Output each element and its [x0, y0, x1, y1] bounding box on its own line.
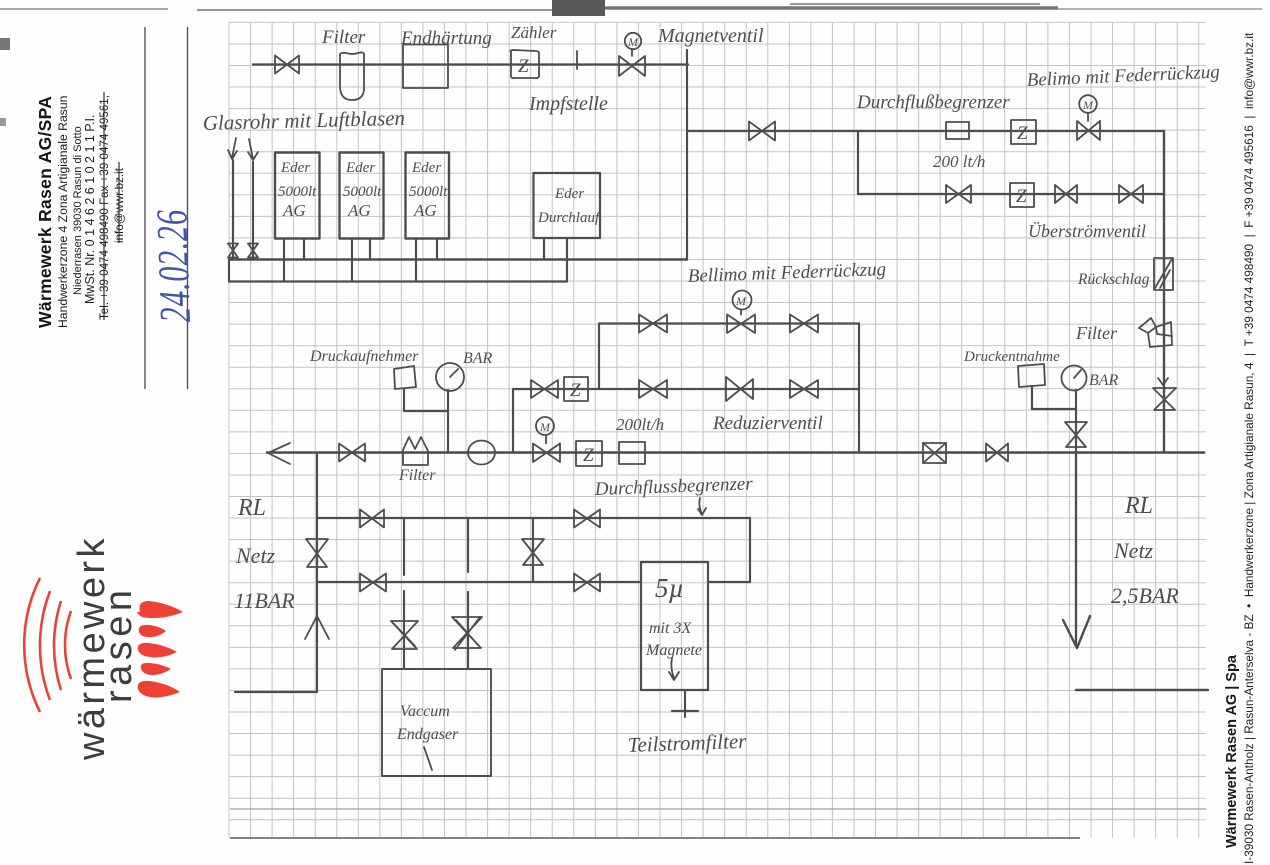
wire manifold lower [229, 280, 567, 282]
graph paper grid [229, 22, 1199, 838]
svg-text:200 lt/h: 200 lt/h [933, 152, 985, 171]
wire right gauge stem [1075, 390, 1077, 453]
main pipe left arrow [268, 443, 290, 464]
svg-text:Magnete: Magnete [645, 642, 702, 659]
vertical valve on left riser [306, 539, 328, 567]
arrow in 5u box [669, 658, 679, 680]
logo flames [137, 601, 183, 618]
svg-text:2,5BAR: 2,5BAR [1111, 583, 1179, 608]
right sensor box [1018, 364, 1045, 387]
arrow under durchflussbegrenzer label [698, 498, 706, 515]
pump ellipse main pipe [468, 441, 495, 465]
left gauge circle [436, 363, 464, 391]
valve on pipe2 [749, 122, 775, 141]
wire corner x750 [749, 518, 751, 582]
wire main pipe [267, 451, 1204, 454]
wire durchlauf box stems [544, 238, 567, 282]
vertical valve x533 [522, 539, 544, 565]
vertical valve on x1164 [1153, 388, 1176, 410]
reducer valve middle branch [726, 377, 753, 401]
valve middle branch 2 [639, 380, 667, 398]
svg-text:Durchlauf: Durchlauf [537, 210, 601, 226]
svg-text:Filter: Filter [398, 467, 436, 484]
wire vertical x599 [598, 324, 600, 390]
svg-text:Magnetventil: Magnetventil [657, 25, 764, 47]
svg-text:BAR: BAR [1089, 372, 1119, 389]
wire vertical x513 [512, 389, 514, 453]
wire tank1 stems [284, 239, 304, 282]
svg-text:Zähler: Zähler [511, 23, 557, 42]
valve V1 top pipe [275, 56, 299, 74]
small valve glas tube2 [248, 244, 258, 258]
wire right downpipe x1076 [1075, 453, 1077, 646]
svg-text:M: M [627, 35, 639, 49]
svg-text:Netz: Netz [235, 543, 276, 568]
Z-box top pipe [510, 50, 539, 78]
svg-text:BAR: BAR [463, 350, 493, 367]
right gauge circle [1062, 366, 1087, 391]
valve upper branch 2 [790, 315, 818, 333]
svg-text:5µ: 5µ [655, 573, 684, 603]
wire middle branch y389 [513, 388, 859, 390]
wire top pipe [253, 63, 688, 65]
svg-text:I-39030 Rasen-Antholz | Rasun-: I-39030 Rasen-Antholz | Rasun-Anterselva… [1242, 32, 1256, 864]
svg-text:M: M [735, 294, 747, 308]
wire vertical x859 [858, 324, 860, 453]
wire vertical from top pipe to manifold [686, 50, 688, 260]
wire line y194 [858, 193, 1164, 195]
strikethrough on info line [118, 162, 120, 243]
wire bottom stub [235, 691, 317, 693]
small valve glas tube1 [228, 244, 238, 258]
svg-text:5000lt: 5000lt [409, 184, 448, 200]
valve bypass line2 a [360, 574, 386, 592]
logo red arcs [24, 578, 40, 712]
crossed box main pipe [923, 443, 946, 463]
svg-text:M: M [1082, 98, 1094, 112]
valve bypass line1 a [360, 510, 384, 528]
svg-text:Wärmewerk Rasen AG | Spa: Wärmewerk Rasen AG | Spa [1224, 654, 1240, 848]
svg-text:Eder: Eder [345, 160, 375, 176]
small line under endgaser [424, 747, 432, 770]
wire pipe 2 [687, 130, 1164, 132]
svg-text:Filter: Filter [1075, 323, 1118, 343]
svg-text:Teilstromfilter: Teilstromfilter [627, 729, 747, 757]
svg-text:M: M [539, 420, 551, 434]
svg-text:Netz: Netz [1113, 538, 1154, 563]
svg-text:24.02.26: 24.02.26 [148, 208, 201, 323]
svg-text:Druckentnahme: Druckentnahme [963, 349, 1060, 365]
belimo valve on pipe2 with M actuator [1077, 113, 1100, 140]
svg-text:AG: AG [347, 201, 371, 220]
wire bottom right line [1076, 689, 1208, 691]
belimo valve upper branch with M [727, 310, 755, 333]
wire upper branch y323 [599, 322, 859, 324]
svg-text:Rückschlag: Rückschlag [1077, 271, 1150, 288]
tank 3 [406, 153, 450, 239]
rect main pipe [619, 442, 645, 464]
svg-text:Filter: Filter [321, 27, 366, 48]
vertical rule 1 [144, 27, 146, 389]
glasrohr arrow 1 [228, 138, 237, 159]
svg-text:200lt/h: 200lt/h [616, 415, 664, 434]
vertical rule 2 [187, 27, 189, 389]
big V arrow bottom of x1076 [1063, 616, 1090, 648]
magnet valve top with M actuator [619, 49, 645, 76]
svg-text:Endhärtung: Endhärtung [400, 28, 492, 49]
svg-text:Eder: Eder [280, 160, 310, 176]
valve1 line194 [946, 185, 971, 203]
svg-text:Z: Z [518, 56, 529, 77]
magnet valve main pipe with M [533, 435, 560, 462]
svg-text:5000lt: 5000lt [343, 184, 382, 200]
Z-box main pipe [576, 441, 602, 466]
check valve (Rueckschlag) [1154, 258, 1173, 290]
left sensor box [394, 366, 416, 389]
flow restrictor rect on pipe2 [946, 122, 969, 139]
svg-text:Vaccum: Vaccum [400, 703, 450, 720]
valve bypass line1 b [574, 510, 600, 528]
wire bypass line1 [317, 517, 750, 519]
svg-text:Z: Z [583, 445, 594, 466]
svg-text:Wärmewerk Rasen AG/SPA: Wärmewerk Rasen AG/SPA [35, 96, 55, 328]
wire manifold left connector [228, 260, 230, 282]
up arrow on left riser [305, 616, 329, 639]
wire tank3 stems [416, 239, 437, 282]
svg-text:AG: AG [413, 201, 437, 220]
wire glas tube 1 [232, 160, 234, 260]
valve3 line194 [1119, 185, 1143, 203]
tick mark on top pipe [576, 51, 578, 69]
valve middle branch 3 [790, 380, 818, 398]
wire tank2 stems [352, 239, 370, 282]
wire left gauge stem [447, 390, 449, 453]
small arrow on x1164 [1158, 378, 1168, 385]
svg-text:RL: RL [1124, 493, 1153, 519]
glasrohr arrow 2 [248, 139, 258, 160]
5u filter box [641, 562, 708, 690]
filter symbol right column [1139, 318, 1172, 347]
wire vertical x404 [403, 518, 405, 669]
left edge marks [0, 38, 10, 50]
wire left riser x317 [316, 453, 318, 693]
wire left sensor L [404, 389, 448, 411]
wire vertical x468 [467, 518, 469, 669]
valve main pipe 1 [339, 444, 365, 462]
svg-text:Druckaufnehmer: Druckaufnehmer [309, 348, 419, 365]
svg-text:Eder: Eder [554, 186, 584, 202]
softener box top pipe [403, 45, 448, 89]
wire 5u stem [672, 690, 698, 717]
filter U top pipe [340, 52, 364, 100]
crossed valve x404 [391, 621, 418, 649]
svg-text:Z: Z [1017, 123, 1028, 144]
valve bypass line2 b [574, 574, 600, 592]
svg-text:Z: Z [1016, 186, 1027, 207]
svg-text:MwSt. Nr. 0 1 4 6 2 6 1 0 2 1: MwSt. Nr. 0 1 4 6 2 6 1 0 2 1 1 P.I. [83, 115, 97, 304]
wire right column x1164 [1163, 131, 1165, 453]
svg-text:RL: RL [237, 495, 266, 521]
svg-text:11BAR: 11BAR [234, 588, 295, 613]
valve2 line194 [1055, 185, 1077, 203]
wire glas tube 2 [252, 162, 254, 260]
top scan edge [0, 8, 168, 10]
svg-text:5000lt: 5000lt [278, 184, 317, 200]
svg-text:Handwerkerzone 4 Zona Artigian: Handwerkerzone 4 Zona Artigianale Rasun [56, 96, 70, 328]
svg-text:Überströmventil: Überströmventil [1028, 221, 1146, 241]
tank 2 [340, 153, 384, 239]
svg-text:Endgaser: Endgaser [396, 726, 459, 743]
wire bypass line2 [317, 581, 750, 583]
svg-text:AG: AG [282, 201, 306, 220]
vertical valve on right gauge stem [1065, 422, 1087, 447]
Z-box on pipe2 [1011, 120, 1036, 144]
wire manifold upper [229, 258, 687, 260]
svg-text:Z: Z [570, 380, 581, 401]
Z-box line194 [1010, 183, 1034, 207]
wire branch down at x858 [857, 131, 859, 194]
darker scan grid lines [230, 808, 1206, 810]
valve main pipe 2 [986, 444, 1008, 462]
svg-text:mit 3X: mit 3X [649, 620, 692, 637]
vaccum box [382, 669, 491, 776]
wire right sensor L [1032, 386, 1076, 409]
strikethrough on Tel line [103, 92, 105, 320]
svg-text:Reduzierventil: Reduzierventil [712, 413, 823, 434]
valve upper branch 1 [639, 315, 667, 333]
crossed valve x468 [452, 617, 482, 650]
tank 1 [275, 153, 320, 239]
Z-box middle branch [564, 377, 588, 401]
svg-text:Impfstelle: Impfstelle [528, 93, 608, 115]
svg-text:Durchflußbegrenzer: Durchflußbegrenzer [856, 92, 1010, 113]
filter symbol main pipe [403, 437, 428, 465]
valve middle branch 1 [531, 380, 558, 398]
svg-text:rasen: rasen [98, 585, 140, 703]
svg-text:Eder: Eder [411, 160, 441, 176]
wire vertical x533 [532, 518, 534, 582]
eder durchlauf box [534, 173, 601, 238]
